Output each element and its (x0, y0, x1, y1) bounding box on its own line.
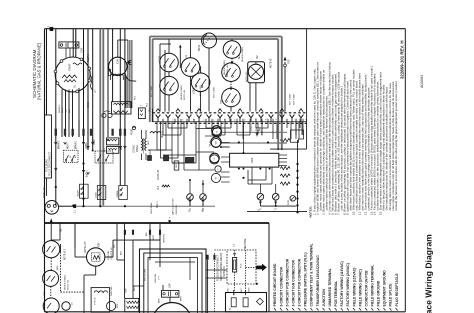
svg-text:FIELD SPLICE: FIELD SPLICE (389, 283, 393, 307)
svg-text:PL1: PL1 (148, 107, 151, 112)
svg-text:2: 2 (296, 119, 298, 120)
svg-text:OV: OV (256, 55, 259, 59)
svg-text:A03004: A03004 (420, 75, 424, 88)
svg-text:(WHEN USED): (WHEN USED) (224, 60, 226, 75)
svg-text:BLK: BLK (146, 231, 148, 236)
svg-text:NEUTRAL: NEUTRAL (244, 238, 247, 249)
svg-text:NOT USED: NOT USED (213, 86, 215, 98)
svg-text:GND-1: GND-1 (250, 123, 253, 131)
svg-text:NOTE #10: NOTE #10 (246, 71, 248, 82)
svg-text:NOTE #4: NOTE #4 (222, 266, 226, 277)
svg-text:5: 5 (203, 119, 205, 120)
svg-text:NOTE #14: NOTE #14 (227, 64, 229, 75)
svg-text:R: R (189, 208, 192, 210)
svg-text:TRANSFORMER 115VAC/24VAC: TRANSFORMER 115VAC/24VAC (316, 255, 320, 307)
svg-text:322869-101 REV. H: 322869-101 REV. H (400, 41, 405, 79)
svg-text:BRN: BRN (181, 296, 183, 301)
svg-text:FACTORY WIRING (115VAC): FACTORY WIRING (115VAC) (340, 261, 344, 306)
svg-text:GRD: GRD (249, 287, 251, 292)
svg-text:WHT: WHT (241, 287, 243, 293)
svg-text:LGPS: LGPS (193, 87, 195, 94)
svg-text:WHT (COM): WHT (COM) (145, 269, 147, 281)
svg-text:FUSED DISCONNECT: FUSED DISCONNECT (215, 254, 219, 281)
svg-text:115VAC: 115VAC (132, 144, 135, 153)
svg-text:NOTE #4: NOTE #4 (43, 187, 46, 198)
svg-text:Com: Com (288, 200, 290, 205)
svg-text:GR2: GR2 (250, 157, 254, 163)
svg-text:6: 6 (213, 119, 215, 120)
svg-text:NOTE #11: NOTE #11 (184, 89, 186, 100)
svg-text:FACTORY WIRING (24VAC): FACTORY WIRING (24VAC) (346, 263, 350, 306)
svg-text:5-CIRCUIT PCB CONNECTOR: 5-CIRCUIT PCB CONNECTOR (285, 258, 289, 306)
svg-text:(NATURAL GAS & PROPANE): (NATURAL GAS & PROPANE) (37, 42, 42, 100)
svg-text:FIELD GROUND: FIELD GROUND (377, 280, 381, 306)
svg-text:2: 2 (172, 119, 174, 120)
svg-text:(2)PL4 #12 HUM: (2)PL4 #12 HUM (173, 198, 175, 215)
svg-text:BLU: BLU (69, 109, 71, 113)
svg-text:FIELD WIRING TERMINAL: FIELD WIRING TERMINAL (371, 265, 375, 307)
svg-text:Furnace Wiring Diagram: Furnace Wiring Diagram (424, 234, 434, 313)
svg-text:OVR-L: OVR-L (262, 129, 264, 136)
svg-text:FUS: FUS (240, 263, 242, 268)
svg-text:CAP: CAP (80, 47, 84, 53)
svg-text:EAC-1: EAC-1 (85, 170, 88, 177)
svg-text:8: 8 (234, 119, 236, 120)
svg-text:SW1/TRAN: SW1/TRAN (150, 202, 153, 214)
svg-text:G: G (259, 209, 261, 211)
svg-text:SWITCH (WHEN REQD): SWITCH (WHEN REQD) (219, 253, 223, 281)
svg-text:CAP: CAP (168, 283, 171, 288)
svg-text:NOTE #12: NOTE #12 (65, 248, 67, 260)
svg-text:PL4: PL4 (157, 185, 160, 190)
svg-text:PLUG RECEPTACLE: PLUG RECEPTACLE (395, 273, 399, 307)
svg-text:SEC-1: SEC-1 (157, 201, 159, 208)
svg-text:UNMARKED TERMINAL: UNMARKED TERMINAL (328, 268, 332, 306)
svg-text:FIELD DISCONNECT: FIELD DISCONNECT (49, 151, 52, 176)
svg-text:EQUIPMENT GROUND: EQUIPMENT GROUND (383, 270, 387, 307)
svg-text:HEAT: HEAT (67, 142, 70, 149)
svg-text:LS: LS (185, 55, 188, 58)
svg-text:(WHEN USED): (WHEN USED) (181, 85, 183, 100)
svg-text:TSS: TSS (221, 99, 223, 104)
svg-text:JUNCTION: JUNCTION (322, 289, 326, 307)
svg-text:3: 3 (182, 119, 184, 120)
svg-text:GRN: GRN (44, 291, 46, 296)
svg-text:BRKR-2: BRKR-2 (59, 140, 61, 149)
svg-text:FIELD WIRING (24VAC): FIELD WIRING (24VAC) (358, 269, 362, 306)
svg-text:PRINTED CIRCUIT BOARD: PRINTED CIRCUIT BOARD (273, 263, 277, 306)
svg-text:(WHEN USED): (WHEN USED) (242, 47, 244, 62)
svg-text:11: 11 (265, 119, 267, 121)
svg-text:BRKR-1: BRKR-1 (75, 140, 77, 149)
svg-text:(WHEN USED): (WHEN USED) (64, 275, 66, 290)
svg-text:PCB TERMINAL: PCB TERMINAL (334, 281, 338, 307)
svg-text:GRN/YEL: GRN/YEL (176, 204, 178, 214)
svg-text:W: W (216, 177, 218, 179)
svg-text:BRN: BRN (158, 298, 160, 303)
svg-text:WHITE-2: WHITE-2 (59, 104, 61, 113)
svg-text:G: G (275, 208, 278, 210)
svg-text:NOT USED: NOT USED (289, 93, 291, 105)
svg-text:9-CIRCUIT CONNECTOR: 9-CIRCUIT CONNECTOR (279, 266, 283, 306)
svg-text:JFT: JFT (95, 89, 97, 93)
svg-text:3: 3 (305, 119, 307, 120)
svg-text:PRS2: PRS2 (199, 44, 201, 51)
svg-text:GRN/YEL: GRN/YEL (111, 286, 113, 296)
svg-text:NOT USED: NOT USED (293, 93, 295, 105)
svg-text:YEL/G: YEL/G (210, 141, 212, 147)
svg-text:BLK: BLK (126, 288, 128, 293)
svg-text:12: 12 (275, 118, 277, 120)
svg-text:IGN: IGN (98, 243, 100, 247)
svg-text:SPARE: SPARE (116, 190, 119, 198)
svg-text:9: 9 (244, 119, 246, 120)
svg-text:FIELD WIRING (115VAC): FIELD WIRING (115VAC) (352, 268, 356, 307)
svg-text:NOTE #11: NOTE #11 (67, 279, 69, 290)
svg-text:HUM: HUM (95, 192, 97, 197)
svg-text:GRN/YEL: GRN/YEL (163, 233, 165, 243)
svg-text:PRS: PRS (117, 303, 119, 308)
svg-text:LO: LO (75, 155, 77, 158)
svg-text:VIO: VIO (114, 244, 116, 248)
svg-text:BLWR: BLWR (78, 190, 80, 197)
svg-text:24VAC: 24VAC (136, 145, 139, 152)
svg-text:BLK: BLK (228, 288, 230, 293)
svg-text:7TY: 7TY (158, 275, 160, 280)
svg-text:2-CIRCUIT PCB CONNECTOR: 2-CIRCUIT PCB CONNECTOR (298, 258, 302, 306)
svg-text:NOTE #5: NOTE #5 (271, 58, 273, 68)
svg-text:PRS: PRS (57, 265, 59, 270)
svg-text:GRN/YEL: GRN/YEL (155, 273, 157, 283)
svg-text:Ground the furnace in accordan: Ground the furnace in accordance with al… (394, 80, 398, 210)
svg-text:PRESSURE SWITCH, SPDT (N.O.): PRESSURE SWITCH, SPDT (N.O.) (304, 252, 308, 306)
svg-text:COMPONENT TEST & TWIN TERMINAL: COMPONENT TEST & TWIN TERMINAL (310, 243, 314, 306)
svg-text:YEL: YEL (60, 227, 62, 232)
svg-text:GRN/YEL: GRN/YEL (108, 250, 110, 260)
svg-text:WHT: WHT (153, 235, 155, 240)
svg-text:SEC: SEC (148, 140, 150, 145)
svg-text:3-CIRCUIT IGN CONNECTOR: 3-CIRCUIT IGN CONNECTOR (292, 259, 296, 306)
svg-text:ALS: ALS (238, 54, 241, 59)
svg-text:IDM: IDM (116, 59, 119, 64)
svg-text:NOTE #15: NOTE #15 (85, 241, 87, 253)
svg-text:CTR #1: CTR #1 (95, 297, 97, 305)
svg-text:BLK-1: BLK-1 (62, 107, 64, 113)
svg-text:NOT USED: NOT USED (151, 85, 153, 97)
svg-text:START: START (68, 63, 71, 71)
svg-text:NOTE #6: NOTE #6 (157, 169, 160, 180)
svg-text:FSE: FSE (288, 59, 291, 64)
svg-text:BLU: BLU (120, 250, 122, 255)
svg-text:CONDUCTOR ON PCB: CONDUCTOR ON PCB (364, 270, 368, 307)
